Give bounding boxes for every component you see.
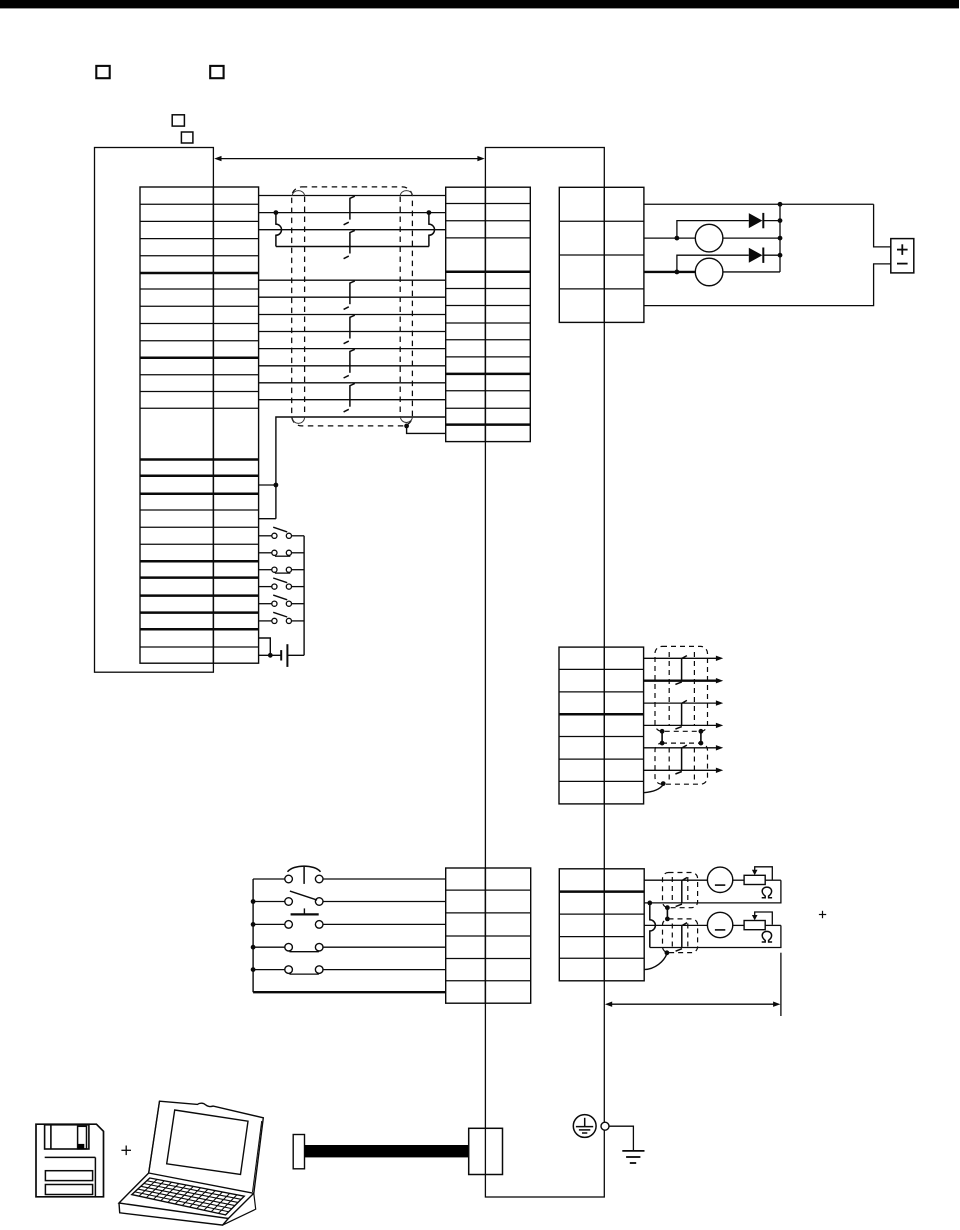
override switch 5: [253, 966, 446, 974]
twisted-pair mark: [676, 878, 688, 907]
input switch 3: [259, 567, 305, 573]
wire shield drop: [407, 426, 446, 434]
hop wire right: [429, 213, 435, 247]
monitor loop 2 return: [650, 925, 781, 947]
wire diode 1 branch: [677, 221, 749, 239]
serial connector CN3 plug: [469, 1128, 503, 1174]
input common bus: [303, 536, 305, 656]
serial cable: [305, 1145, 469, 1157]
junction dot: [778, 236, 783, 241]
connector CN3 table: [446, 868, 531, 1003]
override switch 3: [253, 921, 446, 929]
junction dot: [675, 236, 680, 241]
floppy disk icon: [36, 1124, 104, 1197]
shield dot: [661, 781, 666, 786]
connector CN1 upper table: [446, 187, 531, 441]
ground wire: [609, 1126, 633, 1151]
shield junction dot: [404, 424, 409, 429]
twisted-pair mark: [676, 923, 688, 952]
twisted-pair mark: [344, 349, 355, 378]
junction dot right: [427, 210, 432, 215]
encoder output wire 4: [644, 723, 724, 728]
wire battery loop bottom: [644, 264, 891, 306]
earth ground symbol: [622, 1151, 644, 1163]
encoder output wire 2: [644, 678, 724, 683]
pushbutton actuator: [291, 908, 319, 914]
monitor wire 2: [644, 924, 707, 926]
potentiometer R1: [744, 867, 781, 885]
meter M2: [707, 912, 732, 937]
wire coil 1: [644, 237, 695, 239]
potentiometer R2: [744, 912, 781, 930]
wire common return thick: [253, 991, 446, 993]
emergency stop actuator: [288, 866, 321, 884]
encoder output connector table: [559, 647, 644, 804]
junction dot: [675, 270, 680, 275]
serial cable plug small: [293, 1135, 304, 1169]
input switch 5: [259, 595, 305, 606]
wire battery loop top: [874, 204, 891, 247]
encoder cable tube lines: [669, 652, 694, 780]
override switch 2: [253, 898, 446, 906]
encoder cable jacket upper: [655, 646, 708, 731]
twisted-pair mark: [344, 230, 355, 258]
battery VIN: [281, 644, 304, 667]
relay coil RA1: [695, 224, 723, 252]
junction dot: [778, 218, 783, 223]
wire pulse 3: [259, 314, 446, 316]
junction dot battery: [268, 653, 273, 658]
wire coil 2 out: [723, 271, 780, 273]
encoder cable jacket lower: [655, 743, 708, 784]
shielded cable jacket: [292, 187, 413, 426]
encoder output wire 3: [644, 700, 724, 705]
monitor cable jacket lower: [663, 919, 698, 953]
wire coil 2 thick: [644, 271, 695, 273]
wire stub 518: [259, 518, 276, 520]
monitor wire 1: [644, 879, 707, 881]
laptop computer icon: [119, 1101, 263, 1225]
junction dot: [778, 253, 783, 258]
input switch 2: [259, 550, 305, 556]
contact bridge 4: [289, 951, 319, 953]
controller outer box: [95, 148, 214, 673]
hop wire left: [276, 213, 282, 247]
twisted-pair mark: [344, 384, 355, 412]
twisted-pair mark: [675, 656, 687, 685]
cable tube caps: [292, 191, 412, 424]
wire battery: [259, 654, 281, 656]
junction dot: [778, 202, 783, 207]
bus junction dot: [251, 945, 256, 950]
junction dot return: [274, 483, 279, 488]
plus label pc: [121, 1146, 131, 1156]
twisted-pair mark: [344, 281, 355, 310]
wire pulse 6: [259, 365, 446, 367]
monitor cable tube lines: [672, 877, 688, 948]
ohm label 2: [762, 931, 772, 942]
monitor shield link: [665, 905, 670, 921]
cable tube inner left: [304, 197, 306, 418]
junction dot: [647, 901, 652, 906]
ohm label 1: [762, 887, 772, 898]
wire cable return upper: [276, 417, 446, 519]
title bar: [0, 0, 959, 8]
PE terminal: [601, 1122, 609, 1130]
wire signal 3: [259, 229, 446, 231]
wire pulse 1: [259, 279, 446, 281]
wire meter to pot: [733, 879, 744, 881]
servo amplifier box: [485, 148, 604, 1198]
checkbox marker 4: [181, 132, 193, 143]
monitor cable jacket upper: [663, 873, 698, 908]
encoder output wire 1: [644, 656, 724, 661]
encoder output wire 5: [644, 745, 724, 750]
wire signal 1: [259, 195, 446, 197]
wire signal 2: [259, 212, 446, 214]
twisted-pair mark: [675, 700, 687, 729]
monitor loop 1 return: [644, 880, 781, 903]
shield link right: [699, 729, 704, 746]
checkbox marker 2: [210, 66, 223, 78]
twisted-pair mark: [344, 196, 355, 225]
twisted-pair mark: [344, 315, 355, 344]
cable tube inner right: [399, 197, 401, 418]
wire pulse 2: [259, 296, 446, 298]
override switch 4: [253, 943, 446, 951]
checkbox marker 1: [96, 66, 109, 78]
bus junction dot: [251, 967, 256, 972]
wire pulse 8: [259, 399, 446, 401]
junction dot left: [274, 210, 279, 215]
laptop keyboard: [132, 1178, 244, 1215]
diode D1: [749, 213, 780, 228]
shield ground curve: [644, 785, 664, 793]
twisted-pair mark: [675, 745, 687, 774]
hop to common: [650, 903, 656, 948]
bus junction dot: [251, 922, 256, 927]
wire common bracket: [259, 638, 271, 655]
controller terminal table: [140, 187, 259, 663]
wire pulse 7: [259, 382, 446, 384]
wire pulse 4: [259, 331, 446, 333]
dimension extension line: [780, 953, 782, 1016]
bus junction dot: [251, 899, 256, 904]
input switch 6: [259, 612, 305, 623]
meter M1: [707, 867, 732, 892]
checkbox marker 3: [172, 115, 184, 126]
analog monitor connector table: [559, 869, 644, 981]
diode D2: [749, 248, 780, 263]
plus label: [819, 911, 826, 918]
wire stub 485: [259, 484, 276, 486]
protective earth symbol: [573, 1115, 596, 1138]
distance arrow: [605, 1002, 781, 1007]
wire pulse 5: [259, 348, 446, 350]
wire diode 2 branch: [677, 255, 749, 272]
wire brake +: [644, 203, 874, 205]
connector CN1B brake table: [559, 187, 644, 322]
input switch 1: [259, 527, 305, 538]
input switch 4: [259, 578, 305, 589]
override switch 1: [253, 875, 446, 883]
wire meter2 to pot: [733, 924, 744, 926]
wire coil 1 out: [723, 237, 780, 239]
cross-connect wire: [276, 246, 429, 248]
diode bus: [779, 204, 781, 272]
contact bridge 5: [289, 973, 319, 975]
shield dot: [665, 950, 670, 955]
relay coil RA2: [695, 258, 723, 286]
lower switch bus: [252, 879, 254, 992]
cable length arrow: [214, 156, 485, 161]
monitor shield curve: [644, 954, 667, 970]
encoder output wire 6: [644, 768, 724, 773]
battery 24VDC: [891, 239, 914, 273]
shield link left: [660, 729, 665, 746]
switch lever: [290, 891, 317, 900]
